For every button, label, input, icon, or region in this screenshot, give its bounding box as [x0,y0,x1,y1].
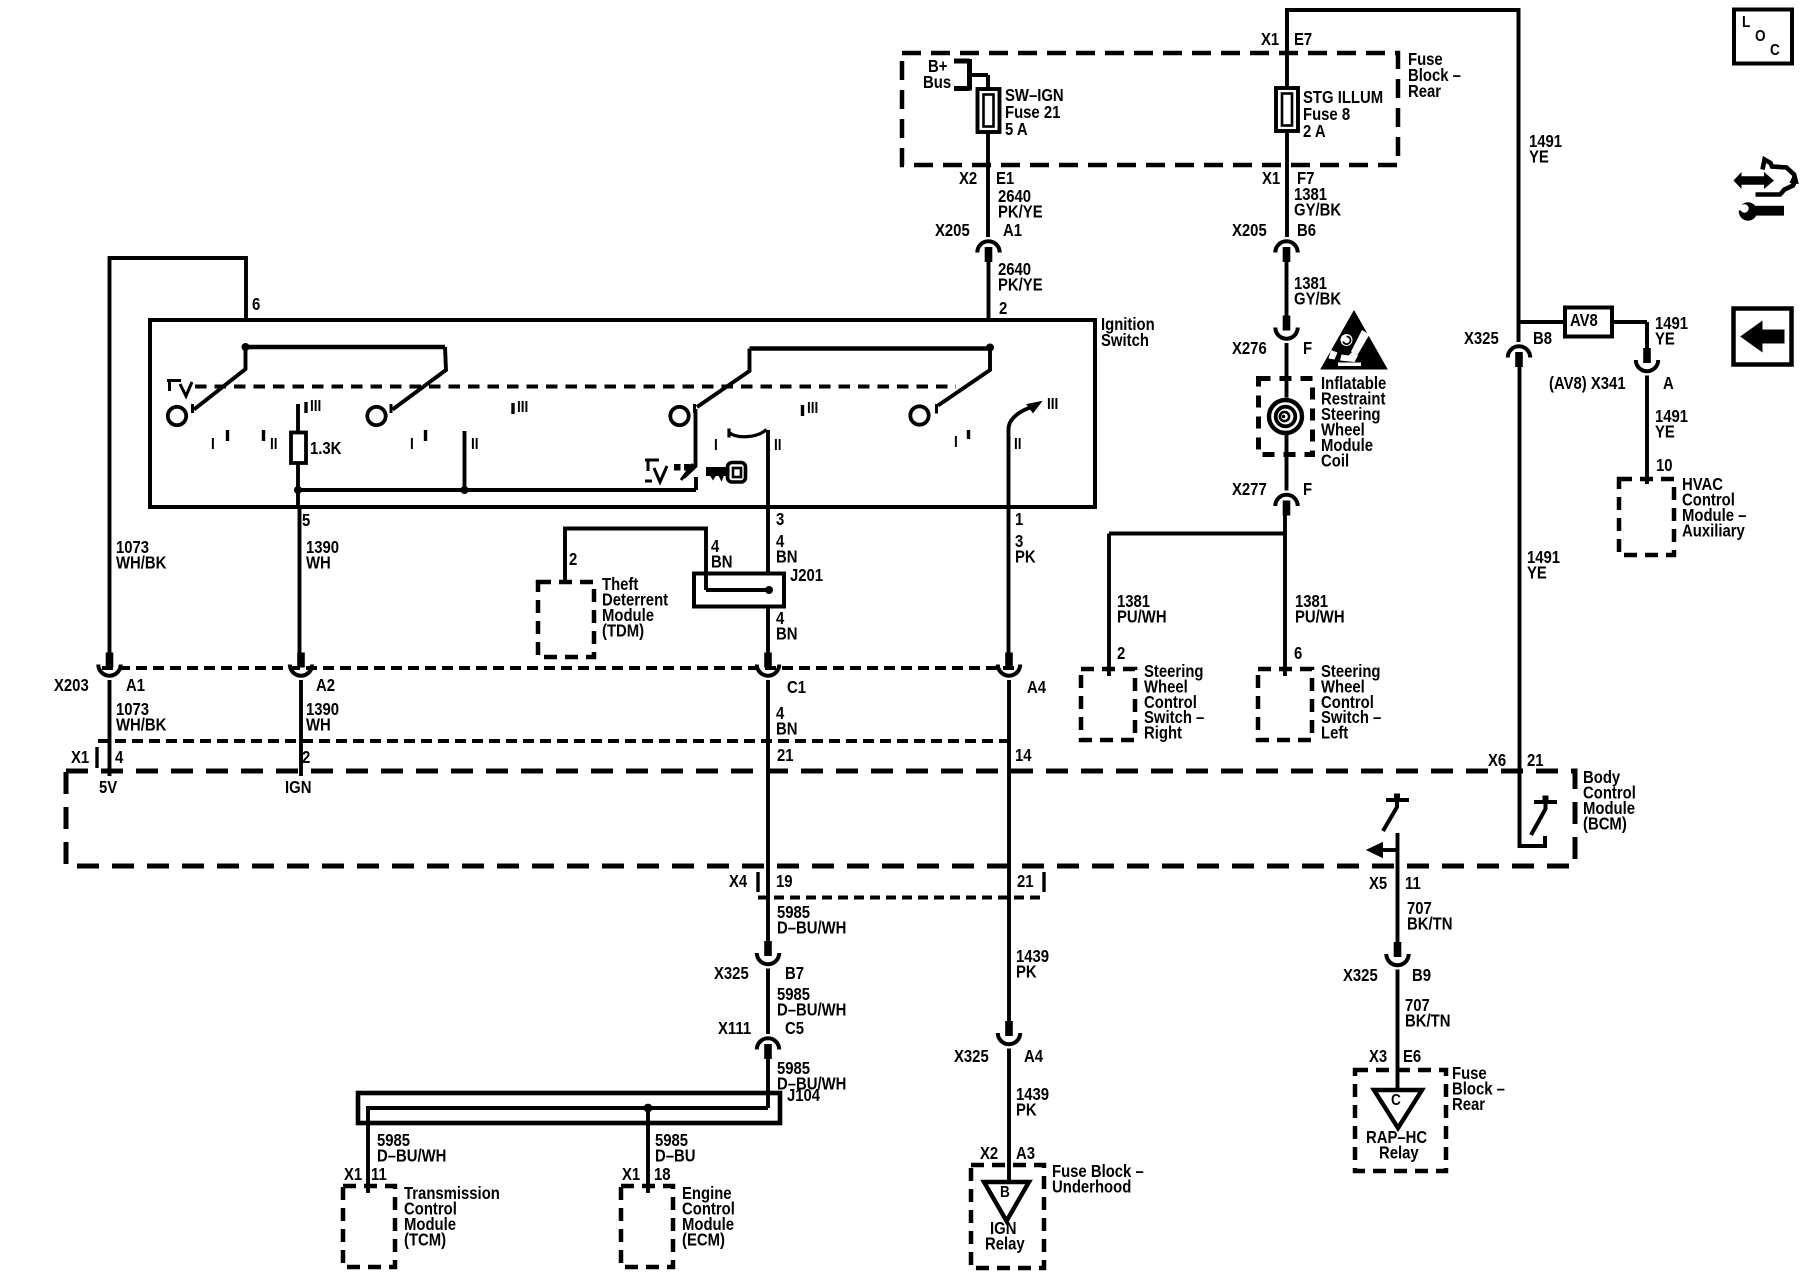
svg-text:X276: X276 [1232,339,1267,358]
svg-text:(ECM): (ECM) [682,1230,725,1249]
contact circle pole 3 [670,407,688,425]
svg-text:11: 11 [1405,874,1421,893]
svg-text:III: III [1047,396,1058,413]
ignition switch box [150,320,1095,507]
svg-text:21: 21 [1017,872,1034,891]
svg-text:X205: X205 [935,221,970,240]
svg-text:I: I [954,434,958,451]
svg-text:X1: X1 [344,1165,362,1184]
svg-text:Coil: Coil [1321,451,1349,470]
svg-text:F: F [1303,339,1312,358]
wire: BCM output 707 BK/TN [1396,833,1400,942]
in-line diode AV8 box [1565,308,1612,337]
SRS caution triangle [1321,311,1387,369]
switch arm pole 1 (lock) [194,347,246,410]
svg-text:X1: X1 [1261,30,1279,49]
svg-text:D–BU/WH: D–BU/WH [777,1000,846,1019]
svg-text:AV8: AV8 [1570,311,1598,330]
transmission control module dashed box [343,1186,395,1267]
svg-text:Rear: Rear [1452,1095,1486,1114]
svg-text:X111: X111 [718,1019,751,1038]
svg-text:J104: J104 [787,1086,820,1105]
svg-text:X4: X4 [729,872,747,891]
wire: E7 feed 1491 YE top run [1287,10,1519,342]
svg-text:BK/TN: BK/TN [1407,914,1452,933]
svg-text:5 A: 5 A [1005,120,1028,139]
svg-text:X3: X3 [1369,1047,1387,1066]
svg-text:III: III [310,398,321,415]
svg-text:O: O [1755,28,1766,45]
svg-text:D–BU/WH: D–BU/WH [377,1146,446,1165]
RAP-HC relay triangle C [1374,1090,1422,1128]
svg-text:21: 21 [777,746,794,765]
svg-text:E1: E1 [996,169,1014,188]
steering wheel control switch - right dashed box [1081,669,1135,740]
svg-text:YE: YE [1529,147,1549,166]
svg-text:IGN: IGN [285,778,311,797]
wire: A2 to BCM IGN [299,680,303,776]
svg-text:X325: X325 [954,1047,989,1066]
wire: coil to X277 [1285,433,1289,491]
wire: A4 to fuse block underhood [1007,1049,1011,1183]
connector line X1 BCM (dashed) [98,739,1014,743]
svg-text:C: C [1770,42,1780,59]
svg-text:5: 5 [302,511,310,530]
engine control module dashed box [621,1186,673,1267]
clockspring coil symbol [1267,398,1305,436]
svg-text:2 A: 2 A [1303,122,1326,141]
svg-text:BK/TN: BK/TN [1405,1011,1450,1030]
contact circle pole 2 [367,407,385,425]
svg-text:10: 10 [1656,456,1673,475]
svg-text:A2: A2 [316,676,335,695]
steering wheel control switch - left dashed box [1258,669,1312,740]
B+ Bus power symbol [954,59,970,91]
contact circle pole 4 [910,406,928,424]
svg-text:X1: X1 [71,748,89,767]
svg-text:BN: BN [776,624,797,643]
svg-text:BN: BN [776,547,797,566]
svg-text:GY/BK: GY/BK [1294,289,1341,308]
svg-text:Rear: Rear [1408,82,1442,101]
svg-text:14: 14 [1015,746,1032,765]
svg-text:B6: B6 [1297,221,1316,240]
position marks pole 4: I [967,430,970,439]
svg-text:B9: B9 [1412,966,1431,985]
wire into clockspring coil [1285,343,1289,398]
splice pack J104 [358,1093,780,1123]
body control module dashed box [66,771,1575,866]
svg-text:BN: BN [711,552,732,571]
svg-text:Auxiliary: Auxiliary [1682,521,1745,540]
wire: AV8 branch [1519,320,1566,324]
svg-text:X1: X1 [1262,169,1280,188]
svg-text:PK: PK [1016,962,1037,981]
wire: fuse 8 to X205 [1285,131,1289,237]
svg-text:II: II [1014,436,1022,453]
svg-text:WH/BK: WH/BK [116,715,167,734]
svg-text:X6: X6 [1488,751,1506,770]
wire: 1381 PU/WH branch to steering wheel switches [1283,516,1287,677]
wire: J201 to X203 C1 [766,607,770,653]
IGN relay triangle B [984,1182,1029,1221]
ignition switch position dashed line [195,385,956,389]
svg-text:D–BU: D–BU [655,1146,695,1165]
svg-text:A3: A3 [1016,1144,1035,1163]
position marks pole 1: I II III [226,430,229,441]
svg-text:X325: X325 [1343,966,1378,985]
svg-text:III: III [807,400,818,417]
svg-text:X2: X2 [980,1144,998,1163]
svg-text:18: 18 [654,1165,671,1184]
wire: ignition switch pin 6 loop to X203 A1 [110,258,247,653]
svg-text:II: II [471,436,479,453]
wire: 1491 YE down to BCM X6-21 [1518,367,1522,771]
svg-text:WH: WH [306,553,331,572]
fuse block - rear dashed box [902,53,1398,165]
svg-text:6: 6 [1294,644,1302,663]
svg-text:I: I [410,436,414,453]
svg-text:Left: Left [1321,724,1349,743]
svg-text:PK/YE: PK/YE [998,275,1043,294]
junction: J104 splice to ECM [644,1104,653,1113]
lock position icon pole 3 [645,460,659,481]
svg-text:II: II [270,436,278,453]
svg-text:X325: X325 [1464,329,1499,348]
key icon [707,468,730,481]
wire: A4 through BCM pin 14 [1007,680,1011,1021]
fuse F8 STG ILLUM 2A [1285,53,1289,88]
svg-text:X203: X203 [54,676,89,695]
svg-text:X5: X5 [1369,874,1387,893]
svg-text:X325: X325 [714,964,749,983]
wire: B7 to X111 C5 [766,969,770,1035]
svg-text:C5: C5 [785,1019,804,1038]
wire: 2640 PK/YE to ignition switch pin 2 [987,262,991,320]
connector X4 sub-box below BCM [756,872,759,892]
svg-text:19: 19 [776,872,793,891]
splice pack J201 [694,574,784,607]
svg-text:X1: X1 [622,1165,640,1184]
service navigation icon (arrows and wrench) [1756,160,1796,195]
svg-text:X2: X2 [959,169,977,188]
svg-text:PU/WH: PU/WH [1117,607,1167,626]
svg-text:6: 6 [252,295,260,314]
wire: 1491 YE to HVAC aux [1645,376,1649,485]
wire: J104 internal bus [368,1108,768,1193]
wire: pin 1 / 3 PK to X203 A4 [1007,507,1011,653]
connector X203 C1 [764,653,772,668]
svg-text:C1: C1 [787,678,806,697]
wire: link pole3 to pin 2 node [750,346,991,351]
svg-text:21: 21 [1527,751,1544,770]
BCM internal switch (retained accessory power) [1520,771,1546,846]
svg-text:(BCM): (BCM) [1583,814,1627,833]
wire: pin 3 line inside switch [766,430,770,507]
svg-text:I: I [211,436,215,453]
connector X203 A4 [1005,653,1013,668]
junction: pin 2 node [986,344,994,352]
svg-text:A: A [1663,374,1674,393]
svg-text:(AV8) X341: (AV8) X341 [1549,374,1626,393]
fuse block - underhood dashed box [971,1165,1044,1268]
svg-text:PK: PK [1015,547,1036,566]
svg-text:J201: J201 [790,566,823,585]
svg-text:E6: E6 [1403,1047,1421,1066]
svg-text:A4: A4 [1024,1047,1043,1066]
svg-text:F: F [1303,480,1312,499]
key-operated contact (dashes and slash) [674,464,681,471]
wire: pole 2 position II contact [463,431,467,490]
switch arm pole 2 [393,347,447,410]
connector line X203 (dashed) [102,666,1017,670]
theft deterrent module dashed box [538,582,594,657]
svg-text:II: II [774,437,782,454]
wire: accessory rail [298,488,696,492]
wire: pin 3 / 4 BN to J201 [766,507,770,574]
svg-text:Underhood: Underhood [1052,1177,1131,1196]
contact circle pole 1 [168,407,186,425]
position marks pole 2: I II III [424,430,427,441]
wire: pin 5 / 1390 WH to X203 A2 [296,490,300,507]
svg-text:D–BU/WH: D–BU/WH [777,918,846,937]
svg-text:YE: YE [1527,563,1547,582]
svg-text:Switch: Switch [1101,331,1149,350]
svg-text:2: 2 [569,550,577,569]
svg-text:1.3K: 1.3K [310,439,342,458]
svg-text:B: B [1000,1184,1010,1201]
connector X203 A1 [106,653,114,668]
svg-text:3: 3 [776,510,784,529]
inflatable restraint steering wheel module coil dashed box [1259,379,1313,455]
HVAC control module - auxiliary dashed box [1619,479,1674,555]
fuse F21 SW-IGN 5A [978,89,1000,132]
svg-text:YE: YE [1655,329,1675,348]
svg-text:2: 2 [1117,644,1125,663]
svg-text:GY/BK: GY/BK [1294,200,1341,219]
wire: TDM pin 2 branch [565,529,706,591]
wire: pin 1 line inside switch [1007,429,1011,507]
switch arm pole 4 [938,348,990,406]
svg-text:YE: YE [1655,422,1675,441]
svg-text:WH/BK: WH/BK [116,553,167,572]
svg-text:11: 11 [371,1165,387,1184]
junction: pin 6 node [242,343,250,351]
svg-text:III: III [517,399,528,416]
wire: C1 through BCM pin 21 [766,680,770,941]
wire: 1381 GY/BK to X276 [1285,262,1289,316]
svg-text:X277: X277 [1232,480,1267,499]
svg-text:PK/YE: PK/YE [998,202,1043,221]
wire: pole 3 wiper to key contact [684,409,696,478]
resistor 1.3K [296,404,300,433]
svg-text:WH: WH [306,715,331,734]
svg-text:2: 2 [999,299,1007,318]
svg-text:Relay: Relay [1379,1143,1419,1162]
svg-text:Bus: Bus [923,73,951,92]
svg-text:C: C [1391,1092,1401,1109]
svg-text:(TCM): (TCM) [404,1230,446,1249]
connector X203 A2 [297,653,305,668]
wire: C5 to J104 [766,1059,770,1108]
svg-text:B7: B7 [785,964,804,983]
switch arm pole 3 [697,349,750,408]
BCM internal switch driver to X5-11 [1383,800,1409,831]
back arrow reference box icon [1734,309,1792,365]
svg-text:5V: 5V [99,778,117,797]
lock position icon pole 1 [167,381,181,392]
svg-text:B8: B8 [1533,329,1552,348]
wire: A1 to BCM 5V [108,680,112,776]
svg-text:4: 4 [115,748,123,767]
switch arm pole 5 (start, spring return arrow) [1009,407,1035,430]
LOC reference box icon [1734,10,1792,64]
wire: B9 to fuse block rear [1396,970,1400,1091]
svg-text:X205: X205 [1232,221,1267,240]
svg-text:2: 2 [302,748,310,767]
svg-text:1: 1 [1015,510,1023,529]
svg-text:A4: A4 [1027,678,1046,697]
svg-text:L: L [1742,14,1750,31]
wire: link pole1 to pole2 feed [246,345,446,350]
wire: fuse 21 to X205 [986,132,990,237]
svg-text:I: I [714,437,718,454]
svg-text:PK: PK [1016,1100,1037,1119]
svg-text:BN: BN [776,719,797,738]
svg-text:A1: A1 [126,676,145,695]
svg-text:Relay: Relay [985,1234,1025,1253]
fuse block - rear (lower) dashed box [1355,1070,1446,1171]
svg-text:(TDM): (TDM) [602,621,644,640]
svg-text:PU/WH: PU/WH [1295,607,1345,626]
svg-text:Right: Right [1144,724,1183,743]
svg-text:E7: E7 [1294,30,1312,49]
svg-text:A1: A1 [1003,221,1022,240]
